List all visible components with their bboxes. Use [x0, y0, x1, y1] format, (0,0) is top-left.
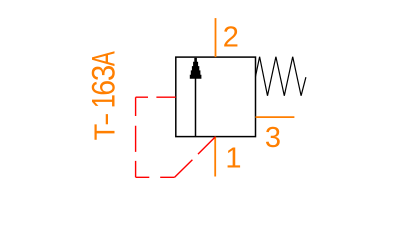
- svg-text:-: -: [88, 112, 120, 126]
- flow arrow head: [190, 58, 202, 79]
- svg-text:3: 3: [265, 122, 281, 154]
- pilot line diagonal: [175, 137, 216, 177]
- svg-text:6: 6: [87, 80, 122, 96]
- port 2 line: [215, 18, 217, 57]
- port 1 line: [214, 137, 216, 177]
- flow arrow stem: [195, 76, 197, 137]
- svg-text:1: 1: [225, 143, 241, 175]
- svg-text:A: A: [85, 51, 121, 66]
- pilot line horizontal upper: [136, 96, 176, 98]
- port 3 line: [256, 116, 295, 118]
- spring: [256, 57, 306, 96]
- valve model label T-163A: [85, 51, 122, 141]
- svg-text:T: T: [89, 124, 121, 141]
- svg-text:2: 2: [223, 21, 239, 53]
- svg-text:3: 3: [85, 65, 121, 81]
- pilot line vertical left: [135, 97, 137, 177]
- valve body box: [176, 57, 256, 137]
- pilot line horizontal lower: [136, 176, 175, 178]
